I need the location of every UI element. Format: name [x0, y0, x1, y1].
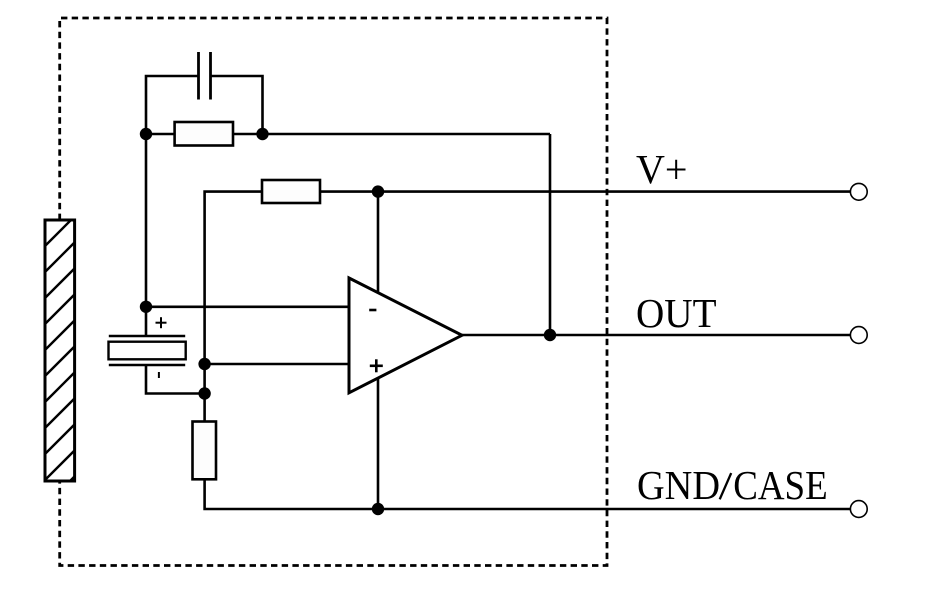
svg-text:CASE: CASE [733, 462, 828, 508]
svg-text:GND: GND [637, 462, 720, 508]
svg-text:OUT: OUT [636, 290, 717, 336]
svg-text:V+: V+ [636, 146, 688, 192]
